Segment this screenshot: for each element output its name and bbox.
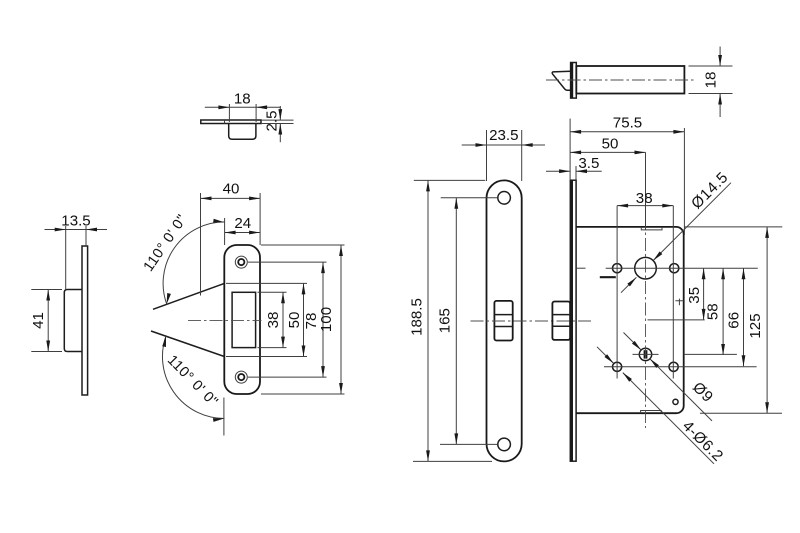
leader Ø14.5 lower line [621, 277, 636, 292]
dim 13.5 left arrow [55, 228, 66, 232]
lock: hub vertical extension line [645, 152, 647, 230]
lock: latch band top line [552, 314, 570, 316]
dim 38 top extension line [258, 291, 287, 293]
dim 100 top extension line [261, 244, 345, 246]
dim 23.5 dimension line [462, 144, 545, 146]
dim 165 top arrow [454, 198, 458, 209]
leader 4-Ø6.2 lower arrow [621, 371, 631, 381]
dim 66 top arrow [742, 268, 746, 279]
dim 50 lock left arrow [570, 151, 581, 155]
lock: hub right fixing hole [670, 264, 679, 273]
dim 35 dimension line [703, 268, 705, 320]
leader Ø14.5 lower arrow [627, 276, 637, 286]
lock: keyhole reference line [684, 353, 737, 355]
bolt top: latch head wedge [552, 71, 570, 90]
leader Ø9 lower arrow [649, 357, 659, 367]
dim 13.5 right arrow [86, 228, 97, 232]
strike front: latch opening [232, 292, 256, 347]
dim 18 left extension line [228, 104, 230, 122]
dim 188.5 bottom extension line [413, 460, 492, 462]
lock: key hole circle [639, 348, 651, 360]
faceplate front: top screw hole [498, 192, 511, 205]
leader Ø9 lower line [650, 359, 712, 421]
dim 2.5 dimension line upper [279, 106, 281, 120]
dim 58 top arrow [721, 268, 725, 279]
dim 50 dimension line [303, 283, 305, 356]
dim 13.5 left extension line [65, 226, 67, 290]
leader 4-Ø6.2 upper arrow [604, 354, 614, 364]
dim 2.5 bottom extension line [261, 123, 294, 125]
angle 110 top arc upper arrow [213, 219, 224, 224]
lock: key hole slot [644, 350, 648, 358]
dim 40 right arrow [249, 197, 260, 201]
dim 38 lock right arrow [662, 204, 673, 208]
leader Ø9 upper line [624, 333, 642, 351]
dim 3.5 left tail [546, 170, 570, 172]
dim 3.5 left arrow [559, 169, 570, 173]
dim 188.5 bottom arrow [426, 450, 430, 461]
dim 100 bottom arrow [339, 383, 343, 394]
svg-text:24: 24 [234, 215, 251, 232]
dim 13.5 right extension line [85, 226, 87, 246]
dim 2.5 dimension line lower [279, 124, 281, 143]
lock: case outline [576, 227, 684, 413]
svg-text:165: 165 [436, 308, 453, 333]
strike front: top screw hole inner [238, 259, 244, 265]
lock: left holes vertical line [616, 206, 618, 379]
dim 75.5 right arrow [673, 130, 684, 134]
dim 18 bolt dimension line upper [719, 47, 721, 67]
dim 50 lock right arrow [635, 151, 646, 155]
dim 100 bottom extension line [261, 393, 345, 395]
svg-text:66: 66 [725, 312, 742, 329]
lock: case top notch [641, 227, 662, 230]
dim 38 dimension line [282, 292, 284, 347]
dim 58 bottom arrow [721, 344, 725, 355]
angle 110 top arc lower arrow [165, 293, 171, 305]
angle 110 bottom extension line [223, 398, 225, 436]
lock: keyhole centerline [633, 353, 659, 355]
svg-text:38: 38 [636, 190, 653, 207]
dim 188.5 top arrow [426, 180, 430, 191]
dim 24 left arrow [225, 231, 236, 235]
strike front: top screw hole outer [235, 256, 247, 268]
dim 165 bottom extension line [440, 443, 498, 445]
svg-text:4-Ø6.2: 4-Ø6.2 [679, 417, 727, 465]
angle 110 bottom arc lower arrow [213, 417, 224, 422]
dim 41 top extension line [31, 289, 62, 291]
svg-text:18: 18 [234, 90, 251, 107]
leader 4-Ø6.2 upper line [597, 347, 614, 364]
lock: lower left fixing hole [613, 362, 622, 371]
dim 18 dimension line [205, 106, 281, 108]
lock: right holes vertical line [672, 206, 674, 379]
strike top: lip joint tick [224, 120, 226, 124]
bolt top: bolt body [576, 66, 684, 94]
dim 38 lock dimension line [617, 205, 673, 207]
dim 40 left extension line [200, 193, 202, 296]
dim 18 right extension line [255, 104, 257, 122]
lock: latch bolt protruding [552, 302, 570, 340]
dim 18 bolt lower arrow [718, 94, 722, 105]
dim 18 bolt dimension line lower [719, 94, 721, 118]
dim 35 top arrow [702, 268, 706, 279]
dim 24 left extension line [224, 218, 226, 245]
dim 50 bottom extension line [226, 356, 307, 358]
dim 41 bottom arrow [46, 341, 50, 352]
dim 75.5 right extension line [683, 128, 685, 235]
dim 2.5 lower arrow [278, 124, 282, 135]
svg-text:50: 50 [286, 312, 303, 329]
dim 78 bottom extension line [248, 376, 327, 378]
faceplate front: centerline [471, 320, 595, 322]
lock: case top edge extension [685, 226, 783, 228]
strike front: bottom screw hole inner [238, 374, 244, 380]
angle 110 bottom arc [162, 335, 224, 418]
strike side: plate bar [82, 246, 88, 395]
lock: short bold mark left of hub [600, 276, 616, 278]
faceplate front: latch band bottom line [494, 326, 512, 328]
dim 165 top extension line [441, 197, 498, 199]
lock: lower right fixing hole [669, 362, 678, 371]
dim 24 right arrow [249, 231, 260, 235]
dim 18 bolt upper arrow [718, 55, 722, 66]
dim 2.5 top extension line [261, 119, 294, 121]
leader 4-Ø6.2 lower line [623, 373, 714, 464]
lock: hub centerline short segment [576, 267, 585, 269]
dim 50 top arrow [302, 283, 306, 294]
dim 23.5 left extension line [486, 130, 488, 181]
dim 3.5 right arrow [576, 169, 587, 173]
dim 3.5 right tail [576, 170, 602, 172]
faceplate front: bottom screw hole [498, 438, 511, 451]
dim 125 dimension line [766, 227, 768, 413]
dim 188.5 top extension line [414, 179, 486, 181]
bolt top: faceplate section dark band [571, 63, 574, 99]
svg-text:23.5: 23.5 [489, 127, 518, 144]
dim 18 left arrow [218, 105, 229, 109]
dim 23.5 right extension line [521, 130, 523, 181]
dim 40 left arrow [201, 197, 212, 201]
dim 38 top arrow [281, 292, 285, 303]
strike front: bottom screw hole outer [235, 371, 247, 383]
lock: faceplate bar [570, 180, 576, 461]
lock: lower holes centerline [604, 366, 757, 368]
dim 13.5 dimension line [45, 229, 108, 231]
bolt top: faceplate section [571, 63, 577, 99]
dim 78 top extension line [248, 261, 327, 263]
dim 38 bottom extension line [258, 347, 287, 349]
faceplate front: latch bolt face [494, 301, 512, 341]
faceplate front: latch band top line [494, 314, 512, 316]
dim 50 lock dimension line [570, 151, 645, 153]
dim 75.5 left extension line [569, 119, 571, 181]
svg-text:13.5: 13.5 [61, 213, 90, 230]
lock: latch band bottom line [552, 325, 570, 327]
dim 23.5 right arrow [522, 143, 533, 147]
dim 50 top extension line [226, 282, 307, 284]
lock: faceplate bar dark band [570, 180, 573, 461]
svg-text:50: 50 [602, 135, 619, 152]
dim 18 bolt top extension line [689, 65, 733, 67]
strike front: centerline [188, 319, 262, 321]
dim 41 dimension line [47, 290, 49, 352]
svg-text:58: 58 [704, 303, 721, 320]
dim 100 top arrow [339, 245, 343, 256]
svg-text:38: 38 [265, 312, 282, 329]
lock: hub horizontal centerline [606, 267, 758, 269]
dim 66 bottom arrow [742, 355, 746, 366]
svg-text:75.5: 75.5 [613, 115, 642, 132]
lock: case bottom notch [641, 411, 662, 414]
dim 2.5 upper arrow [278, 109, 282, 120]
lock: 35 reference line [648, 319, 705, 321]
dim 125 top arrow [765, 227, 769, 238]
dim 125 bottom arrow [765, 402, 769, 413]
lock: hub left fixing hole [613, 264, 622, 273]
dim 165 bottom arrow [454, 433, 458, 444]
dim 40 dimension line [201, 197, 261, 199]
dim 3.5 right extension line [575, 166, 577, 180]
dim 23.5 left arrow [476, 143, 487, 147]
svg-text:2.5: 2.5 [264, 111, 281, 132]
dim 18 bolt bottom extension line [689, 93, 733, 95]
angle 110 top arc [163, 222, 224, 305]
angle 110 bottom arc upper arrow [162, 335, 168, 346]
strike top: dust box [229, 124, 256, 140]
svg-text:Ø14.5: Ø14.5 [688, 169, 732, 213]
dim 40 right extension line [259, 193, 261, 245]
svg-text:100: 100 [318, 307, 335, 332]
dim 165 dimension line [455, 198, 457, 445]
dim 78 bottom arrow [321, 366, 325, 377]
dim 75.5 dimension line [570, 131, 684, 133]
dim 35 bottom arrow [702, 309, 706, 320]
dim 38 bottom arrow [281, 337, 285, 348]
svg-text:125: 125 [747, 313, 764, 338]
svg-text:18: 18 [703, 72, 720, 89]
dim 38 lock left arrow [617, 204, 628, 208]
dim 41 top arrow [46, 290, 50, 301]
strike front: lip bottom edge [151, 331, 224, 357]
leader Ø14.5 upper arrow [652, 251, 662, 261]
faceplate front: plate body [487, 180, 522, 461]
dim 78 dimension line [322, 262, 324, 377]
dim 78 top arrow [321, 262, 325, 273]
svg-text:35: 35 [686, 287, 703, 304]
dim 66 dimension line [743, 268, 745, 366]
svg-text:188.5: 188.5 [409, 298, 426, 336]
dim 58 dimension line [722, 268, 724, 355]
leader Ø9 upper arrow [632, 341, 642, 351]
dim 188.5 dimension line [427, 180, 429, 461]
bolt top: centerline [546, 79, 695, 81]
dim 24 dimension line [225, 232, 261, 234]
svg-text:3.5: 3.5 [578, 155, 599, 172]
dim 100 dimension line [340, 245, 342, 394]
svg-text:41: 41 [30, 312, 47, 329]
svg-text:110° 0' 0": 110° 0' 0" [164, 352, 221, 410]
strike side: dust box [64, 290, 82, 352]
svg-text:40: 40 [223, 180, 240, 197]
dim 75.5 left arrow [570, 130, 581, 134]
lock: small cross mark [675, 299, 683, 306]
dim 50 bottom arrow [302, 346, 306, 357]
strike top: plate bar [201, 120, 261, 124]
dim 41 bottom extension line [31, 351, 62, 353]
leader Ø14.5 upper line [653, 183, 731, 261]
lock: case bottom edge extension [700, 412, 782, 414]
lock: hub vertical centerline [645, 230, 647, 428]
strike front: lip top edge [153, 283, 224, 309]
lock: small pin hole [673, 399, 678, 404]
dim 18 right arrow [256, 105, 267, 109]
strike front: plate body [224, 245, 260, 394]
lock: hub hole [635, 257, 657, 279]
